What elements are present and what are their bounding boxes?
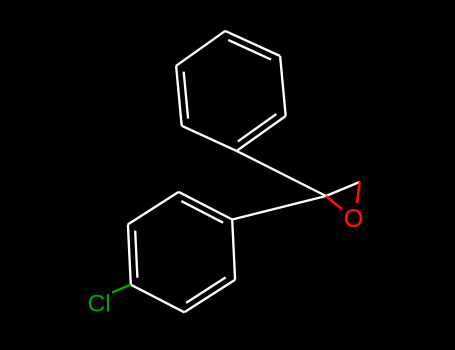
svg-text:Cl: Cl [88, 291, 111, 318]
svg-text:O: O [344, 205, 363, 233]
